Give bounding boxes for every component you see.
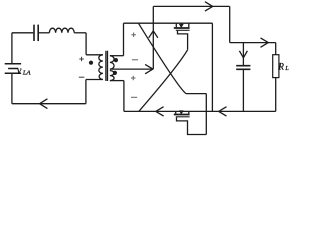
bottom return wire to battery: [12, 103, 86, 105]
secondary top lead: [110, 55, 124, 57]
wire down to transformer primary top: [85, 33, 87, 55]
MOSFET Q2 gate wire step: [177, 117, 207, 134]
polarity dot secondary lower: [113, 71, 117, 75]
resistor RL box: [273, 55, 279, 78]
Q2 gate wire horizontal: [186, 93, 206, 95]
secondary bottom lead: [110, 80, 124, 82]
center tap lead with right arrow: [110, 68, 153, 70]
battery vLA plates: [5, 63, 21, 65]
MOSFET Q1 drain lead: [175, 23, 177, 27]
capacitor branch arrow down: [242, 43, 244, 66]
bottom rail: [124, 110, 276, 112]
MOSFET Q1 source lead: [188, 23, 190, 27]
inductor L (4 humps): [49, 28, 74, 33]
label - secondary upper: [132, 59, 138, 61]
capacitor C (series, plates): [34, 25, 38, 41]
arrow left on bottom rail 2: [219, 107, 227, 116]
battery vLA top wire vertical: [11, 33, 13, 63]
label + secondary mid: [131, 76, 136, 81]
arrow left on bottom rail 1: [156, 107, 164, 116]
wire to resistor top: [275, 43, 277, 55]
resistor RL bottom lead: [275, 78, 277, 112]
node - primary: [79, 76, 85, 78]
svg-text:LA: LA: [22, 69, 32, 76]
wire primary bottom down: [85, 80, 87, 104]
wire top to capacitor: [12, 32, 33, 34]
wire top rail down: [229, 6, 231, 42]
MOSFET Q1 gate bar: [176, 29, 190, 31]
MOSFET Q2 middle lead arrow down: [180, 110, 182, 112]
MOSFET Q2 drain lead: [175, 111, 177, 113]
polarity dot secondary upper: [114, 58, 118, 62]
wire Q1 source down right side: [211, 23, 213, 111]
secondary lower winding S2 (2 arcs, bulge right): [110, 71, 114, 81]
node + primary: [79, 57, 84, 62]
secondary upper winding S1 (2 arcs, bulge right): [110, 56, 114, 69]
transformer primary winding P1 (4 arcs, bulge left): [99, 55, 103, 80]
MOSFET Q2 gate bar: [176, 116, 190, 118]
svg-text:v: v: [17, 66, 22, 77]
output top rail with right arrow: [230, 42, 276, 44]
MOSFET Q1 gate wire step: [178, 31, 188, 50]
crossed wire B: Q2 gate to top wire: [138, 23, 186, 93]
svg-text:L: L: [284, 66, 289, 72]
MOSFET Q2 channel: [174, 114, 190, 116]
primary bottom lead: [86, 79, 103, 81]
capacitor bottom lead: [242, 69, 244, 111]
arrow left on bottom wire: [40, 99, 48, 109]
svg-text:R: R: [277, 62, 284, 72]
polarity dot primary: [89, 61, 93, 65]
label vLA: [17, 62, 290, 77]
arrow up on center tap vertical: [149, 31, 158, 38]
wire battery bottom: [11, 74, 13, 104]
MOSFET Q2 source lead: [188, 111, 190, 113]
MOSFET Q1 channel: [174, 27, 190, 29]
top rail with right arrow: [153, 5, 229, 7]
wire secondary top up: [123, 23, 125, 56]
top wire to MOSFET Q1: [124, 22, 213, 24]
label - secondary bottom: [131, 96, 137, 98]
primary top lead: [86, 54, 103, 56]
wire secondary bottom down: [123, 81, 125, 112]
label + top: [131, 32, 136, 37]
transformer core: [106, 51, 108, 81]
crossed wire A: Q1 gate to bottom rail: [139, 50, 188, 112]
wire capacitor to inductor: [39, 32, 49, 34]
output capacitor plates: [236, 66, 250, 70]
MOSFET Q1 middle lead arrow down: [180, 23, 182, 24]
Q2 gate wire vertical up: [205, 94, 207, 135]
wire inductor to corner: [74, 32, 86, 34]
center tap vertical wire up: [152, 6, 154, 69]
